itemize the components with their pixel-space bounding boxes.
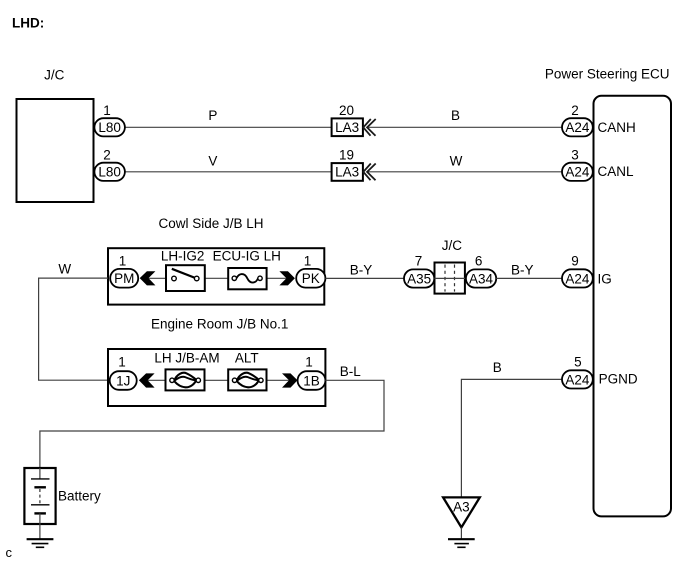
- battery B1: [24, 468, 55, 524]
- svg-text:W: W: [450, 153, 463, 168]
- wire B-L 1B to battery: [40, 380, 384, 468]
- svg-text:2: 2: [571, 103, 579, 118]
- connector A24 pin 9: [562, 254, 593, 288]
- connector A35 pin 7: [404, 254, 434, 288]
- connector A24 pin 2: [562, 103, 593, 137]
- connector A24 pin 3: [562, 147, 593, 181]
- svg-text:1: 1: [119, 254, 127, 269]
- ground (A3): [448, 539, 475, 547]
- wire B-Y A34 to A24: [496, 277, 562, 279]
- svg-text:Cowl Side J/B LH: Cowl Side J/B LH: [158, 216, 263, 231]
- svg-text:LH J/B-AM: LH J/B-AM: [154, 351, 219, 366]
- svg-text:9: 9: [571, 254, 579, 269]
- svg-text:6: 6: [475, 254, 483, 269]
- svg-text:LHD:: LHD:: [12, 15, 44, 30]
- svg-text:3: 3: [571, 147, 579, 162]
- connector A24 pin 5: [562, 354, 593, 388]
- svg-text:CANL: CANL: [598, 164, 635, 179]
- svg-text:A24: A24: [565, 120, 590, 135]
- fuse ECU-IG LH: [213, 248, 281, 289]
- svg-text:B-Y: B-Y: [511, 263, 534, 278]
- svg-text:20: 20: [339, 103, 354, 118]
- connector 1J pin 1: [110, 354, 137, 390]
- switch LH-IG2: [161, 248, 205, 291]
- svg-text:7: 7: [415, 254, 423, 269]
- svg-text:Power Steering ECU: Power Steering ECU: [545, 66, 670, 81]
- wire through J/C square: [434, 277, 466, 279]
- shield chevron row1: [363, 119, 375, 136]
- connector L80 pin 2: [94, 147, 125, 181]
- wire W left loop (Cowl PM to Engine Room 1J): [39, 278, 108, 380]
- svg-text:B: B: [493, 360, 502, 375]
- svg-text:W: W: [58, 262, 71, 277]
- connector 1B pin 1: [298, 354, 326, 390]
- svg-text:LA3: LA3: [335, 120, 359, 135]
- Cowl Side J/B LH box: [108, 248, 324, 304]
- wire V row2 L80 to LA3: [125, 171, 332, 173]
- connector arrow left row3: [140, 271, 156, 285]
- svg-text:L80: L80: [98, 165, 121, 180]
- ECU U1 Power Steering ECU box: [594, 96, 672, 517]
- shield chevron row2: [363, 164, 375, 181]
- svg-text:ALT: ALT: [235, 351, 259, 366]
- svg-text:1J: 1J: [116, 374, 130, 389]
- fusible link LH J/B-AM: [154, 351, 219, 391]
- svg-text:B-L: B-L: [340, 364, 362, 379]
- connector PK pin 1: [296, 254, 325, 288]
- svg-text:ECU-IG LH: ECU-IG LH: [213, 248, 281, 263]
- battery ground wire: [39, 524, 41, 539]
- junction connector J/C square: [435, 263, 465, 294]
- wire B-Y PK to A35: [325, 277, 404, 279]
- wire A3 to ground: [460, 527, 462, 538]
- svg-text:19: 19: [339, 147, 354, 162]
- svg-text:J/C: J/C: [442, 238, 463, 253]
- svg-text:J/C: J/C: [44, 67, 65, 82]
- svg-text:2: 2: [103, 147, 111, 162]
- wire B PGND A24 to shield ground: [461, 379, 562, 497]
- wire segments inside Cowl box row3: [149, 277, 167, 279]
- svg-text:c: c: [6, 545, 13, 560]
- fusible link ALT: [228, 351, 266, 391]
- svg-text:B-Y: B-Y: [350, 263, 373, 278]
- svg-text:B: B: [451, 108, 460, 123]
- svg-text:A34: A34: [469, 271, 494, 286]
- svg-text:LH-IG2: LH-IG2: [161, 248, 205, 263]
- svg-text:A24: A24: [565, 372, 590, 387]
- svg-text:A24: A24: [565, 165, 590, 180]
- svg-text:5: 5: [574, 354, 582, 369]
- svg-text:1: 1: [103, 103, 111, 118]
- connector PM pin 1: [110, 254, 138, 288]
- svg-text:PK: PK: [302, 271, 320, 286]
- connector arrow right row3: [279, 271, 295, 285]
- shield ground connector A3 triangle: [443, 497, 480, 527]
- svg-text:A24: A24: [565, 271, 590, 286]
- connector L80 pin 1: [94, 103, 125, 137]
- connector A34 pin 6: [466, 254, 496, 288]
- wire B row1 chevron to A24: [367, 126, 562, 128]
- svg-text:A35: A35: [407, 271, 431, 286]
- connector LA3 pin 20: [332, 103, 363, 136]
- svg-text:Engine Room J/B No.1: Engine Room J/B No.1: [151, 317, 288, 332]
- wire segments inside Engine Room box row4: [148, 379, 166, 381]
- svg-text:1: 1: [118, 354, 126, 369]
- connector arrow left row4: [139, 373, 155, 387]
- svg-text:CANH: CANH: [598, 120, 636, 135]
- svg-text:IG: IG: [598, 271, 612, 286]
- svg-text:1B: 1B: [303, 374, 320, 389]
- wire P row1 L80 to LA3: [125, 126, 332, 128]
- svg-text:1: 1: [304, 254, 312, 269]
- connector arrow right row4: [282, 373, 298, 387]
- ground (battery): [27, 539, 54, 547]
- svg-text:PM: PM: [114, 271, 134, 286]
- junction connector J/C box: [17, 99, 94, 202]
- connector LA3 pin 19: [332, 147, 363, 181]
- svg-text:1: 1: [305, 354, 313, 369]
- svg-text:Battery: Battery: [58, 488, 101, 503]
- svg-text:V: V: [208, 153, 217, 168]
- Engine Room J/B No.1 box: [108, 349, 325, 406]
- svg-text:P: P: [208, 108, 217, 123]
- svg-text:A3: A3: [453, 499, 470, 514]
- svg-text:LA3: LA3: [335, 165, 359, 180]
- svg-text:PGND: PGND: [599, 372, 638, 387]
- wire W row2 chevron to A24: [367, 171, 562, 173]
- svg-text:L80: L80: [98, 120, 121, 135]
